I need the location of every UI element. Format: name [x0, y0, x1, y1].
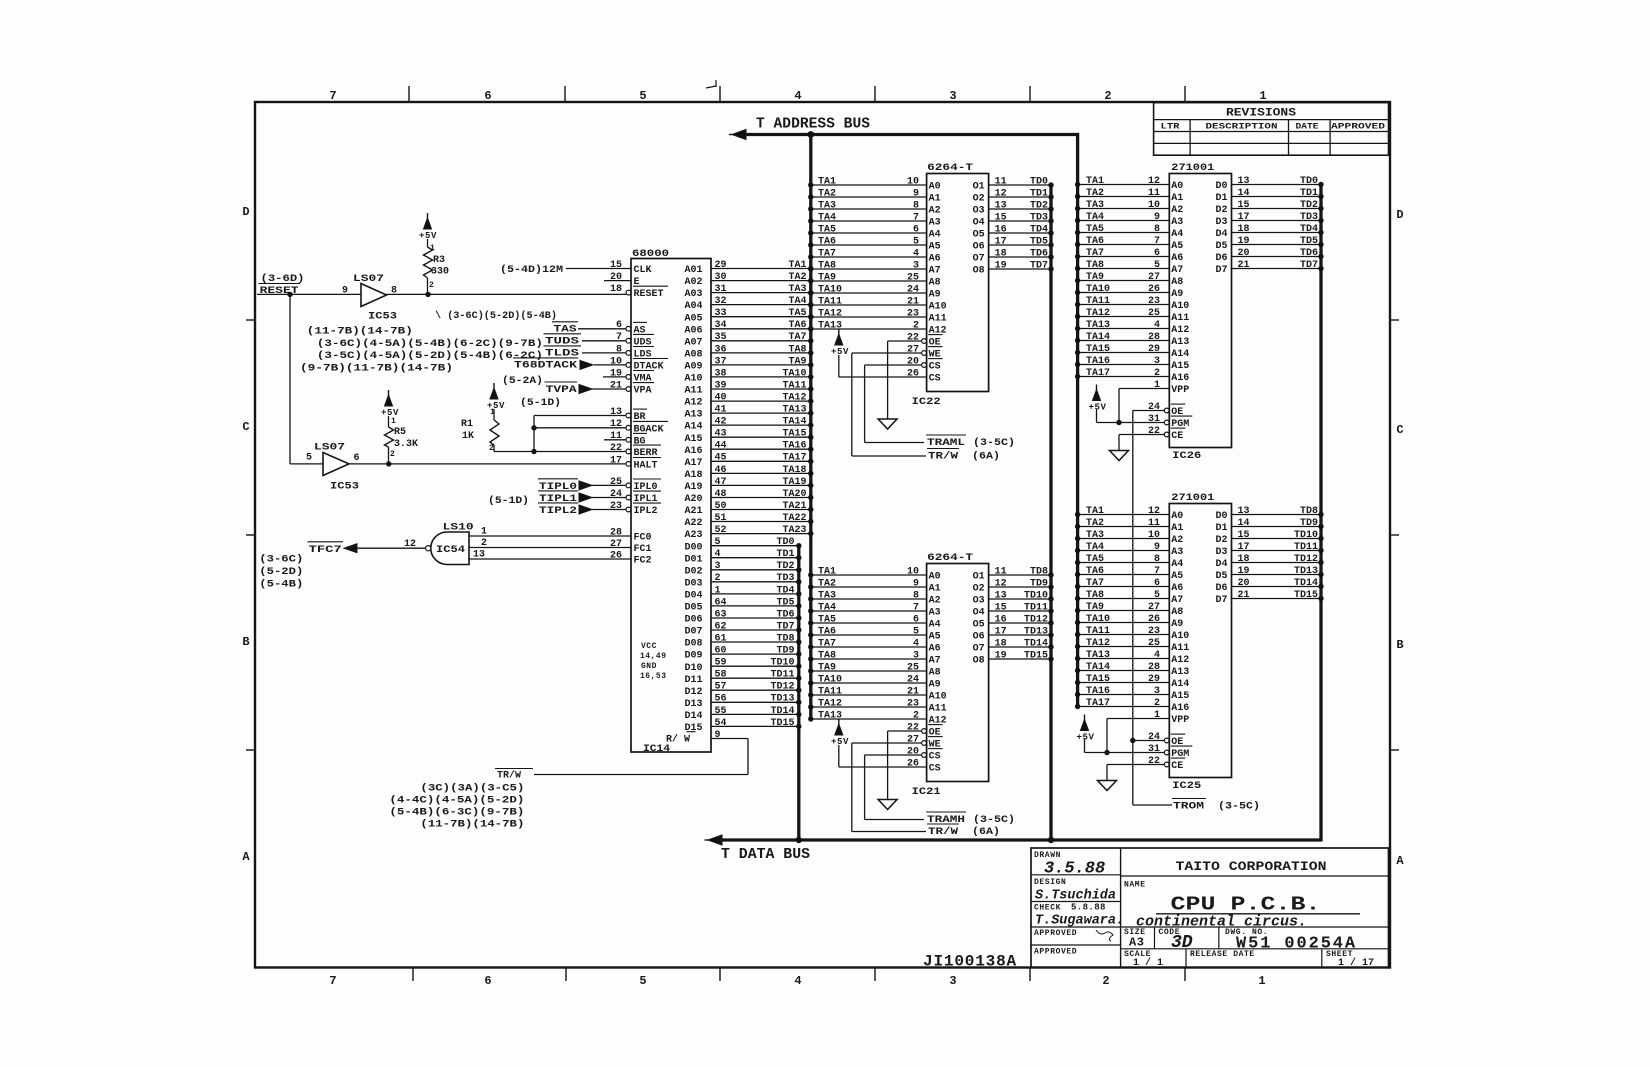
IC25 pin 26 A9 wire from TA10 — [1078, 622, 1170, 624]
svg-text:TRAMH: TRAMH — [927, 815, 965, 826]
svg-text:24: 24 — [610, 489, 622, 500]
svg-text:1 / 1: 1 / 1 — [1133, 957, 1163, 969]
svg-text:13: 13 — [1238, 176, 1250, 187]
svg-text:APPROVED: APPROVED — [1034, 929, 1077, 938]
svg-text:A5: A5 — [1171, 241, 1183, 252]
T ADDRESS BUS junction — [807, 131, 814, 138]
svg-text:59: 59 — [715, 658, 727, 669]
svg-text:D7: D7 — [1215, 265, 1227, 276]
IC14 pin 62 D07 wire to TD7 — [711, 629, 799, 631]
svg-text:TA11: TA11 — [1086, 626, 1110, 637]
svg-text:38: 38 — [715, 368, 727, 379]
svg-text:TA13: TA13 — [782, 405, 806, 416]
svg-text:TA1: TA1 — [1086, 506, 1104, 517]
svg-text:4: 4 — [1154, 650, 1160, 661]
svg-text:39: 39 — [715, 380, 727, 391]
svg-text:2: 2 — [913, 320, 919, 331]
svg-text:A16: A16 — [1171, 373, 1189, 384]
IC22 pin 17 O6 wire to TD5 — [989, 244, 1051, 246]
svg-text:S.Tsuchida: S.Tsuchida — [1035, 889, 1116, 904]
svg-text:62: 62 — [715, 621, 727, 632]
svg-text:TA6: TA6 — [1086, 236, 1104, 247]
IC25 pin 3 A15 wire from TA16 — [1078, 694, 1170, 696]
svg-text:A7: A7 — [1171, 265, 1183, 276]
IC25 pin 18 D4 wire to TD12 — [1232, 562, 1322, 564]
svg-text:TD4: TD4 — [1300, 224, 1318, 235]
IC14 pin 21 VPA — [592, 388, 626, 390]
svg-text:A05: A05 — [685, 313, 703, 324]
ROM IC26 271001 body — [1169, 174, 1231, 448]
svg-text:10: 10 — [610, 356, 622, 367]
svg-text:R1: R1 — [461, 419, 473, 430]
IC25 pin 12 A0 wire from TA1 — [1078, 514, 1170, 516]
svg-text:TR/W: TR/W — [497, 770, 521, 782]
TD bus vertical (68000) — [797, 546, 800, 841]
svg-text:TA8: TA8 — [1086, 260, 1104, 271]
svg-text:18: 18 — [995, 638, 1007, 649]
svg-text:23: 23 — [907, 308, 919, 319]
svg-text:O2: O2 — [973, 584, 985, 595]
IC14 pin 39 A11 wire to TA11 — [711, 388, 811, 390]
IC22 pin 9 A1 wire from TA2 — [811, 196, 927, 198]
IC21 pin 18 O7 wire to TD14 — [989, 646, 1051, 648]
IC14 pin 20 E — [604, 280, 631, 282]
svg-text:IC22: IC22 — [912, 397, 941, 408]
svg-text:A6: A6 — [1171, 583, 1183, 594]
svg-text:TD0: TD0 — [1030, 176, 1048, 187]
smudge mark top — [706, 86, 716, 88]
svg-text:TA3: TA3 — [1086, 200, 1104, 211]
IC26 pin 21 D7 wire to TD7 — [1232, 268, 1322, 270]
svg-text:TA4: TA4 — [788, 296, 806, 307]
gate IC54 LS10 body — [431, 532, 469, 565]
svg-text:TIPL2: TIPL2 — [539, 506, 577, 517]
svg-text:1: 1 — [481, 527, 487, 538]
svg-text:A9: A9 — [929, 290, 941, 301]
svg-text:2: 2 — [1154, 698, 1160, 709]
svg-text:D06: D06 — [685, 615, 703, 626]
svg-text:IC26: IC26 — [1172, 451, 1201, 462]
svg-text:TA18: TA18 — [782, 465, 806, 476]
svg-text:1K: 1K — [462, 431, 474, 442]
IC14 pin 46 A18 wire to TA18 — [711, 472, 811, 474]
svg-text:7: 7 — [1154, 566, 1160, 577]
svg-text:TA10: TA10 — [1086, 614, 1110, 625]
IC14 pin 10 DTACK — [594, 364, 626, 366]
TD bus vertical (ROM) — [1319, 185, 1322, 842]
svg-text:12: 12 — [995, 578, 1007, 589]
svg-text:TD7: TD7 — [1030, 260, 1048, 271]
svg-text:2: 2 — [390, 450, 395, 459]
svg-text:TA23: TA23 — [782, 525, 806, 536]
svg-text:17: 17 — [1238, 212, 1250, 223]
IC14 pin 57 D12 wire to TD12 — [711, 689, 799, 691]
svg-text:24: 24 — [907, 284, 919, 295]
svg-text:TA7: TA7 — [818, 638, 836, 649]
resistor R3 330 — [424, 218, 432, 229]
wire buffer output to IC14 RESET — [387, 293, 627, 295]
svg-text:A6: A6 — [1171, 253, 1183, 264]
IC14 pin 35 A07 wire to TA7 — [711, 340, 811, 342]
svg-text:CS: CS — [929, 374, 941, 385]
svg-text:D07: D07 — [685, 627, 703, 638]
svg-text:A11: A11 — [685, 386, 703, 397]
svg-text:50: 50 — [715, 501, 727, 512]
svg-text:A11: A11 — [1171, 313, 1189, 324]
svg-text:17: 17 — [995, 626, 1007, 637]
svg-text:TD5: TD5 — [1030, 236, 1048, 247]
svg-text:19: 19 — [1238, 236, 1250, 247]
svg-text:TD0: TD0 — [1300, 176, 1318, 187]
svg-text:A6: A6 — [929, 644, 941, 655]
IC26 pin 19 D5 wire to TD5 — [1232, 244, 1322, 246]
svg-text:15: 15 — [1238, 530, 1250, 541]
IC22 pin 11 O1 wire to TD0 — [989, 184, 1051, 186]
svg-text:A0: A0 — [929, 182, 941, 193]
svg-text:TFC7: TFC7 — [309, 545, 342, 556]
svg-text:TD15: TD15 — [770, 718, 794, 729]
svg-text:6: 6 — [616, 320, 622, 331]
svg-text:R5: R5 — [394, 427, 406, 438]
svg-text:A8: A8 — [1171, 277, 1183, 288]
svg-text:A16: A16 — [685, 446, 703, 457]
svg-text:19: 19 — [995, 650, 1007, 661]
IC14 pin 8 LDS — [582, 352, 626, 354]
svg-text:2: 2 — [1104, 89, 1111, 103]
svg-text:O1: O1 — [973, 182, 985, 193]
svg-text:(3-5C)(4-5A)(5-2D)(5-4B)(6-2C): (3-5C)(4-5A)(5-2D)(5-4B)(6-2C) — [317, 350, 543, 362]
IC14 pin 58 D11 wire to TD11 — [711, 677, 799, 679]
svg-text:11: 11 — [610, 431, 622, 442]
svg-text:25: 25 — [610, 477, 622, 488]
svg-text:TD10: TD10 — [770, 658, 794, 669]
svg-text:TD8: TD8 — [1030, 566, 1048, 577]
svg-text:2: 2 — [715, 573, 721, 584]
wire RESET to buffer input — [257, 293, 361, 295]
svg-text:D02: D02 — [685, 566, 703, 577]
IC14 pin 43 A15 wire to TA15 — [711, 436, 811, 438]
svg-text:TA5: TA5 — [818, 614, 836, 625]
IC21 pin 15 O4 wire to TD11 — [989, 610, 1051, 612]
svg-text:4: 4 — [913, 638, 919, 649]
svg-text:271001: 271001 — [1171, 493, 1214, 504]
svg-text:D0: D0 — [1215, 511, 1227, 522]
svg-text:A09: A09 — [685, 362, 703, 373]
svg-text:4: 4 — [1154, 320, 1160, 331]
svg-text:13: 13 — [610, 407, 622, 418]
IC14 pin 23 IPL2 — [592, 509, 626, 511]
IC14 pin 6 AS — [578, 328, 626, 330]
svg-text:A: A — [1396, 854, 1404, 868]
IC26 pin 5 A7 wire from TA8 — [1078, 268, 1170, 270]
svg-text:TA2: TA2 — [818, 578, 836, 589]
IC25 pin 29 A14 wire from TA15 — [1078, 682, 1170, 684]
svg-text:VPP: VPP — [1171, 715, 1189, 726]
svg-text:68000: 68000 — [632, 249, 669, 260]
svg-text:TA2: TA2 — [1086, 518, 1104, 529]
svg-text:9: 9 — [342, 286, 348, 297]
IC14 pin 38 A10 wire to TA10 — [711, 376, 811, 378]
IC14 pin 63 D06 wire to TD6 — [711, 617, 799, 619]
svg-text:3.5.88: 3.5.88 — [1044, 860, 1105, 879]
svg-text:CE: CE — [1171, 761, 1183, 772]
IC14 pin 19 VMA — [603, 376, 626, 378]
svg-text:TA7: TA7 — [788, 332, 806, 343]
svg-text:TA9: TA9 — [818, 662, 836, 673]
junction RESET branch — [287, 292, 292, 297]
IC22 pin 24 A9 wire from TA10 — [811, 292, 927, 294]
svg-text:6: 6 — [1154, 578, 1160, 589]
svg-text:TA1: TA1 — [1086, 176, 1104, 187]
svg-text:6264-T: 6264-T — [927, 163, 973, 174]
svg-text:O4: O4 — [973, 608, 985, 619]
svg-text:17: 17 — [610, 455, 622, 466]
svg-text:C: C — [242, 420, 249, 434]
svg-text:A4: A4 — [929, 620, 941, 631]
svg-text:A20: A20 — [685, 494, 703, 505]
svg-text:(5-4B): (5-4B) — [259, 579, 303, 591]
svg-text:40: 40 — [715, 393, 727, 404]
svg-text:O6: O6 — [973, 632, 985, 643]
svg-text:A9: A9 — [1171, 289, 1183, 300]
svg-text:13: 13 — [995, 590, 1007, 601]
IC14 pin 27 FC1 — [469, 547, 631, 549]
svg-text:33: 33 — [715, 308, 727, 319]
IC14 pin 11 BG — [604, 439, 626, 441]
junction BERR — [531, 449, 536, 454]
svg-text:30: 30 — [715, 272, 727, 283]
svg-text:O4: O4 — [973, 218, 985, 229]
svg-text:O3: O3 — [973, 596, 985, 607]
svg-text:22: 22 — [610, 443, 622, 454]
IC26 pin 8 A4 wire from TA5 — [1078, 232, 1170, 234]
svg-text:LS07: LS07 — [353, 274, 384, 285]
IC14 pin 41 A13 wire to TA13 — [711, 412, 811, 414]
svg-text:7: 7 — [1154, 236, 1160, 247]
svg-text:5: 5 — [306, 453, 312, 464]
IC14 pin 13 BR — [534, 415, 626, 417]
svg-text:A2: A2 — [929, 596, 941, 607]
svg-text:TA17: TA17 — [1086, 698, 1110, 709]
IC54 output bubble — [426, 546, 431, 551]
svg-text:D00: D00 — [685, 542, 703, 553]
svg-text:18: 18 — [610, 284, 622, 295]
svg-text:D14: D14 — [685, 711, 703, 722]
svg-text:A14: A14 — [1171, 349, 1189, 360]
junction BGACK — [531, 425, 536, 430]
svg-text:IC21: IC21 — [912, 787, 941, 798]
svg-text:A13: A13 — [1171, 337, 1189, 348]
svg-text:O5: O5 — [973, 620, 985, 631]
IC21 pin 9 A1 wire from TA2 — [811, 586, 927, 588]
svg-text:8: 8 — [616, 344, 622, 355]
svg-text:7: 7 — [616, 332, 622, 343]
svg-text:TR/W: TR/W — [928, 451, 958, 463]
svg-text:D2: D2 — [1215, 205, 1227, 216]
svg-text:A2: A2 — [1171, 205, 1183, 216]
svg-text:A10: A10 — [1171, 631, 1189, 642]
svg-text:TA11: TA11 — [782, 380, 806, 391]
IC22 pin 5 A5 wire from TA6 — [811, 244, 927, 246]
IC26 pin 20 D6 wire to TD6 — [1232, 256, 1322, 258]
IC22 pin 6 A4 wire from TA5 — [811, 232, 927, 234]
svg-text:O7: O7 — [973, 644, 985, 655]
svg-text:12: 12 — [1148, 176, 1160, 187]
svg-text:BG: BG — [634, 436, 646, 447]
svg-text:56: 56 — [715, 694, 727, 705]
svg-text:29: 29 — [715, 260, 727, 271]
IC14 pin 17 HALT — [349, 463, 626, 465]
IC14 pin 42 A14 wire to TA14 — [711, 424, 811, 426]
svg-text:TA6: TA6 — [818, 626, 836, 637]
IC14 pin 22 BERR — [533, 451, 626, 453]
svg-text:7: 7 — [913, 602, 919, 613]
svg-text:TA14: TA14 — [1086, 332, 1110, 343]
IC22 pin 10 A0 wire from TA1 — [811, 184, 927, 186]
svg-text:11: 11 — [995, 176, 1007, 187]
IC21 pin 5 A5 wire from TA6 — [811, 634, 927, 636]
svg-text:A11: A11 — [929, 704, 947, 715]
svg-text:A11: A11 — [929, 314, 947, 325]
IC22 pin 2 A12 wire from TA13 — [811, 328, 927, 330]
svg-text:T.Sugawara.: T.Sugawara. — [1035, 914, 1124, 929]
svg-text:18: 18 — [1238, 224, 1250, 235]
svg-text:D5: D5 — [1215, 241, 1227, 252]
IC26 pin 29 A14 wire from TA15 — [1078, 352, 1170, 354]
IC22 pin 13 O3 wire to TD2 — [989, 208, 1051, 210]
IC25 pin 19 D5 wire to TD13 — [1232, 574, 1322, 576]
svg-text:27: 27 — [907, 734, 919, 745]
IC14 pin 33 A05 wire to TA5 — [711, 316, 811, 318]
svg-text:TA11: TA11 — [818, 686, 842, 697]
svg-text:A15: A15 — [1171, 361, 1189, 372]
svg-text:A5: A5 — [1171, 571, 1183, 582]
IC21 pin 16 O5 wire to TD12 — [989, 622, 1051, 624]
svg-text:TA13: TA13 — [1086, 650, 1110, 661]
svg-text:APPROVED: APPROVED — [1331, 122, 1385, 132]
IC25 pin 9 A3 wire from TA4 — [1078, 550, 1170, 552]
svg-text:A0: A0 — [929, 572, 941, 583]
svg-text:20: 20 — [610, 272, 622, 283]
svg-text:TA16: TA16 — [1086, 356, 1110, 367]
svg-text:15: 15 — [1238, 200, 1250, 211]
svg-text:TA14: TA14 — [1086, 662, 1110, 673]
svg-text:D3: D3 — [1215, 217, 1227, 228]
svg-text:26: 26 — [907, 368, 919, 379]
svg-text:27: 27 — [907, 344, 919, 355]
IC14 pin 54 D15 wire to TD15 — [711, 725, 799, 727]
svg-text:T68DTACK: T68DTACK — [514, 361, 577, 372]
IC22 pin 25 A8 wire from TA9 — [811, 280, 927, 282]
IC26 pin 9 A3 wire from TA4 — [1078, 220, 1170, 222]
wire TROM: IC26 OE to IC25 OE down to label — [1132, 411, 1134, 806]
svg-text:TR/W: TR/W — [928, 826, 958, 838]
svg-text:TA10: TA10 — [1086, 284, 1110, 295]
svg-text:TA5: TA5 — [1086, 224, 1104, 235]
svg-text:TA10: TA10 — [818, 284, 842, 295]
svg-text:58: 58 — [715, 670, 727, 681]
svg-text:9: 9 — [1154, 542, 1160, 553]
svg-text:A11: A11 — [1171, 643, 1189, 654]
svg-text:+5V: +5V — [1089, 403, 1107, 413]
svg-text:9: 9 — [913, 578, 919, 589]
svg-text:16: 16 — [995, 614, 1007, 625]
svg-text:D13: D13 — [685, 699, 703, 710]
svg-text:LS07: LS07 — [314, 443, 345, 454]
svg-text:TD6: TD6 — [1300, 248, 1318, 259]
svg-text:CS: CS — [929, 752, 941, 763]
svg-text:TD12: TD12 — [1294, 554, 1318, 565]
svg-text:TA12: TA12 — [818, 308, 842, 319]
svg-text:TA12: TA12 — [1086, 638, 1110, 649]
svg-text:2: 2 — [1154, 368, 1160, 379]
svg-text:TD15: TD15 — [1024, 650, 1048, 661]
IC14 pin 3 D02 wire to TD2 — [711, 569, 799, 571]
IC26 pin 25 A11 wire from TA12 — [1078, 316, 1170, 318]
IC21 pin 23 A11 wire from TA12 — [811, 706, 927, 708]
IC26 pin 6 A6 wire from TA7 — [1078, 256, 1170, 258]
svg-text:D0: D0 — [1215, 181, 1227, 192]
svg-text:A12: A12 — [1171, 325, 1189, 336]
svg-text:24: 24 — [907, 674, 919, 685]
svg-text:8: 8 — [1154, 224, 1160, 235]
svg-text:R3: R3 — [433, 255, 445, 266]
svg-text:TA13: TA13 — [1086, 320, 1110, 331]
svg-text:D05: D05 — [685, 603, 703, 614]
svg-text:TA1: TA1 — [818, 176, 836, 187]
svg-text:APPROVED: APPROVED — [1034, 948, 1077, 957]
IC21 pin 3 A7 wire from TA8 — [811, 658, 927, 660]
svg-text:12: 12 — [610, 419, 622, 430]
IC25 pin 25 A11 wire from TA12 — [1078, 646, 1170, 648]
svg-text:TA4: TA4 — [818, 602, 836, 613]
ROM IC25 271001 body — [1169, 504, 1231, 778]
svg-text:TA2: TA2 — [788, 272, 806, 283]
svg-text:NAME: NAME — [1124, 881, 1146, 890]
title block frame — [1031, 848, 1389, 968]
svg-text:TA5: TA5 — [818, 224, 836, 235]
svg-text:46: 46 — [715, 465, 727, 476]
IC14 pin 2 D03 wire to TD3 — [711, 581, 799, 583]
svg-text:1: 1 — [1258, 974, 1265, 988]
svg-text:A3: A3 — [929, 608, 941, 619]
svg-text:D01: D01 — [685, 554, 703, 565]
svg-text:26: 26 — [907, 758, 919, 769]
svg-text:D08: D08 — [685, 639, 703, 650]
svg-text:D11: D11 — [685, 675, 703, 686]
svg-text:6264-T: 6264-T — [927, 553, 973, 564]
svg-text:(3C)(3A)(3-C5): (3C)(3A)(3-C5) — [420, 783, 524, 795]
svg-text:(6A): (6A) — [972, 826, 1000, 838]
ground for IC22 OE — [878, 419, 897, 429]
IC14 pin 28 FC0 — [469, 535, 631, 537]
svg-text:TA9: TA9 — [788, 356, 806, 367]
svg-text:A18: A18 — [685, 470, 703, 481]
svg-text:TD4: TD4 — [1030, 224, 1048, 235]
IC21 pin 17 O6 wire to TD13 — [989, 634, 1051, 636]
svg-text:TA15: TA15 — [1086, 344, 1110, 355]
svg-text:18: 18 — [995, 248, 1007, 259]
IC26 pin 18 D4 wire to TD4 — [1232, 232, 1322, 234]
svg-text:28: 28 — [1148, 662, 1160, 673]
IC14 pin 60 D09 wire to TD9 — [711, 653, 799, 655]
svg-text:TD3: TD3 — [1030, 212, 1048, 223]
IC26 pin 2 A16 wire from TA17 — [1078, 376, 1170, 378]
svg-text:A07: A07 — [685, 337, 703, 348]
+5V for IC22 CS — [835, 334, 843, 345]
svg-text:5: 5 — [913, 236, 919, 247]
junction VPP/PGM/+5V IC26 — [1116, 420, 1121, 425]
